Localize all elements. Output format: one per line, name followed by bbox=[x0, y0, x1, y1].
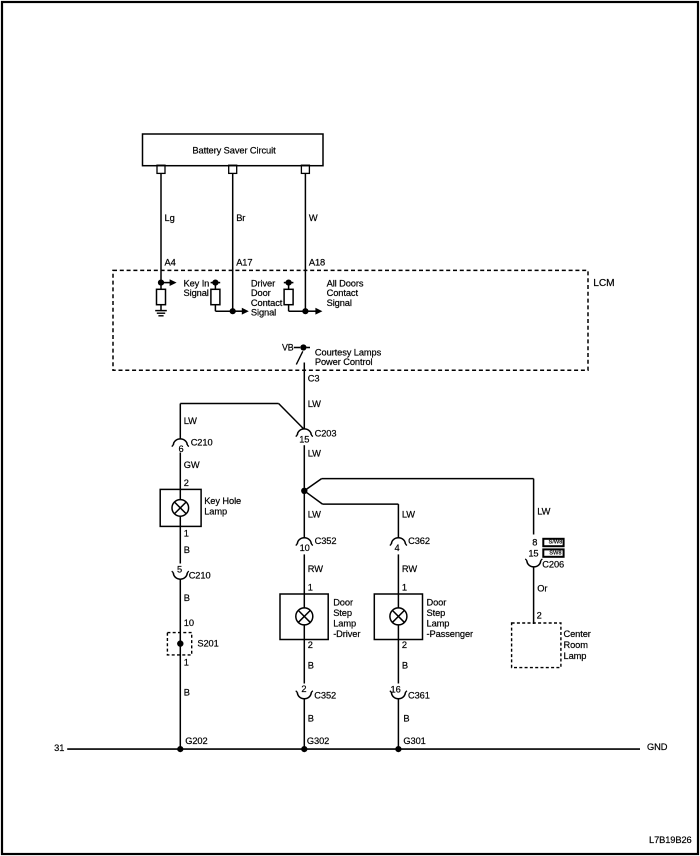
svg-text:Contact: Contact bbox=[251, 298, 283, 308]
svg-text:A17: A17 bbox=[236, 257, 252, 267]
svg-text:C3: C3 bbox=[308, 373, 320, 383]
svg-text:Lamp: Lamp bbox=[564, 651, 587, 661]
svg-text:LW: LW bbox=[308, 448, 321, 458]
svg-text:-Passenger: -Passenger bbox=[427, 629, 474, 639]
svg-text:Door: Door bbox=[333, 598, 353, 608]
svg-text:-Driver: -Driver bbox=[333, 629, 360, 639]
svg-text:W: W bbox=[309, 213, 318, 223]
svg-text:C210: C210 bbox=[189, 571, 211, 581]
svg-text:31: 31 bbox=[54, 743, 64, 753]
svg-text:15: 15 bbox=[299, 435, 309, 445]
svg-text:2: 2 bbox=[308, 640, 313, 650]
svg-text:A18: A18 bbox=[309, 257, 325, 267]
svg-text:LW: LW bbox=[308, 509, 321, 519]
svg-text:Contact: Contact bbox=[327, 288, 359, 298]
svg-text:1: 1 bbox=[184, 658, 189, 668]
svg-text:Key In: Key In bbox=[184, 278, 210, 288]
svg-text:Driver: Driver bbox=[251, 278, 275, 288]
svg-text:Courtesy Lamps: Courtesy Lamps bbox=[315, 347, 382, 357]
svg-text:LW: LW bbox=[308, 399, 321, 409]
svg-text:Step: Step bbox=[427, 608, 446, 618]
svg-text:GW: GW bbox=[184, 460, 200, 470]
svg-text:B: B bbox=[403, 713, 409, 723]
svg-text:G302: G302 bbox=[307, 736, 329, 746]
svg-text:A4: A4 bbox=[165, 257, 176, 267]
svg-text:VB: VB bbox=[282, 343, 294, 353]
svg-text:Battery Saver Circuit: Battery Saver Circuit bbox=[192, 146, 276, 156]
svg-text:Or: Or bbox=[537, 583, 547, 593]
svg-text:C352: C352 bbox=[315, 536, 337, 546]
svg-text:1: 1 bbox=[402, 582, 407, 592]
svg-text:C210: C210 bbox=[191, 437, 213, 447]
svg-text:Center: Center bbox=[564, 629, 591, 639]
svg-text:S201: S201 bbox=[197, 638, 218, 648]
svg-text:5: 5 bbox=[177, 564, 182, 574]
svg-text:LW: LW bbox=[184, 416, 197, 426]
svg-text:Lamp: Lamp bbox=[204, 507, 227, 517]
svg-text:RW: RW bbox=[308, 564, 323, 574]
svg-text:2: 2 bbox=[402, 640, 407, 650]
svg-text:15: 15 bbox=[528, 548, 538, 558]
svg-text:Lg: Lg bbox=[165, 213, 175, 223]
svg-text:B: B bbox=[402, 660, 408, 670]
svg-text:LW: LW bbox=[402, 509, 415, 519]
svg-text:10: 10 bbox=[184, 618, 194, 628]
svg-text:2: 2 bbox=[537, 610, 542, 620]
svg-text:Signal: Signal bbox=[327, 298, 352, 308]
svg-text:B: B bbox=[184, 593, 190, 603]
svg-text:C352: C352 bbox=[314, 690, 336, 700]
svg-text:G202: G202 bbox=[185, 736, 207, 746]
svg-text:4: 4 bbox=[394, 543, 399, 553]
svg-text:Step: Step bbox=[333, 608, 352, 618]
svg-text:B: B bbox=[184, 687, 190, 697]
svg-text:1: 1 bbox=[184, 529, 189, 539]
svg-text:B: B bbox=[308, 713, 314, 723]
svg-text:C203: C203 bbox=[315, 428, 337, 438]
svg-text:Signal: Signal bbox=[184, 288, 209, 298]
svg-text:LW: LW bbox=[537, 507, 550, 517]
svg-text:S/W8: S/W8 bbox=[549, 540, 564, 546]
svg-text:Lamp: Lamp bbox=[427, 618, 450, 628]
svg-text:Br: Br bbox=[236, 213, 245, 223]
svg-text:Room: Room bbox=[564, 640, 589, 650]
svg-text:Door: Door bbox=[251, 288, 271, 298]
svg-text:RW: RW bbox=[402, 564, 417, 574]
svg-text:Key Hole: Key Hole bbox=[204, 496, 241, 506]
svg-text:GND: GND bbox=[647, 742, 668, 752]
svg-text:10: 10 bbox=[300, 543, 310, 553]
svg-text:B: B bbox=[184, 545, 190, 555]
svg-text:G301: G301 bbox=[403, 736, 425, 746]
svg-text:8: 8 bbox=[532, 537, 537, 547]
svg-text:SW8: SW8 bbox=[549, 550, 562, 556]
svg-text:C206: C206 bbox=[542, 559, 564, 569]
svg-text:L7B19B26: L7B19B26 bbox=[649, 835, 692, 845]
svg-text:Power Control: Power Control bbox=[315, 357, 373, 367]
svg-text:LCM: LCM bbox=[593, 278, 614, 289]
svg-text:6: 6 bbox=[178, 444, 183, 454]
svg-text:2: 2 bbox=[301, 684, 306, 694]
svg-text:All Doors: All Doors bbox=[327, 278, 364, 288]
svg-text:C362: C362 bbox=[408, 536, 430, 546]
svg-text:Signal: Signal bbox=[251, 308, 276, 318]
svg-text:B: B bbox=[308, 660, 314, 670]
svg-text:C361: C361 bbox=[408, 690, 430, 700]
svg-text:Lamp: Lamp bbox=[333, 618, 356, 628]
svg-text:Door: Door bbox=[427, 598, 447, 608]
svg-text:1: 1 bbox=[308, 582, 313, 592]
svg-text:2: 2 bbox=[184, 478, 189, 488]
